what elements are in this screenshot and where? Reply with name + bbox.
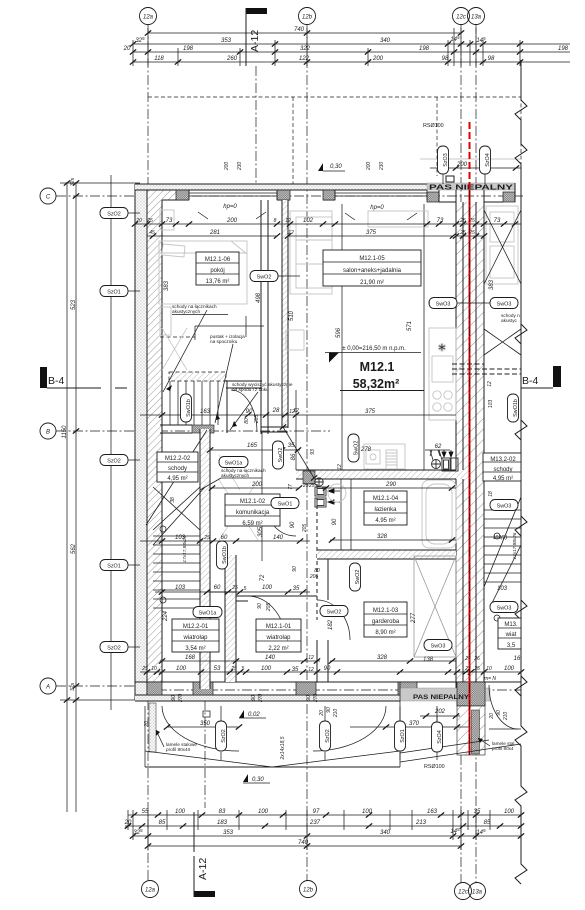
svg-text:83: 83: [219, 809, 226, 815]
svg-text:90: 90: [332, 518, 338, 525]
svg-text:305: 305: [258, 526, 264, 537]
svg-text:akustycznych: akustycznych: [221, 473, 250, 478]
svg-text:SwO1: SwO1: [278, 502, 293, 508]
svg-text:53: 53: [214, 666, 221, 672]
svg-text:od spodu i z boku: od spodu i z boku: [232, 387, 269, 392]
svg-text:571: 571: [407, 321, 413, 331]
svg-text:200: 200: [372, 56, 384, 62]
svg-text:498: 498: [256, 292, 262, 303]
svg-text:210: 210: [333, 709, 339, 719]
svg-text:25: 25: [473, 666, 480, 672]
svg-text:12: 12: [308, 667, 314, 673]
svg-text:45: 45: [149, 230, 155, 236]
svg-text:73: 73: [437, 218, 444, 224]
svg-text:wiat: wiat: [505, 632, 517, 638]
svg-text:224: 224: [163, 610, 169, 622]
svg-text:281: 281: [209, 230, 220, 236]
svg-text:118: 118: [154, 56, 164, 62]
svg-text:SwO3: SwO3: [431, 644, 446, 650]
svg-text:SwO2: SwO2: [354, 441, 360, 456]
svg-text:740: 740: [294, 27, 305, 33]
svg-text:35: 35: [293, 586, 300, 592]
svg-text:schody: schody: [493, 467, 512, 473]
svg-text:200: 200: [226, 218, 238, 224]
svg-text:SwO1a: SwO1a: [199, 611, 217, 617]
svg-text:98: 98: [488, 56, 495, 62]
svg-text:60: 60: [214, 585, 221, 591]
svg-text:25: 25: [230, 666, 237, 672]
svg-text:4,95 m²: 4,95 m²: [493, 476, 513, 482]
svg-text:103: 103: [497, 586, 508, 592]
svg-text:12: 12: [487, 381, 493, 387]
svg-text:A: A: [45, 685, 50, 691]
svg-text:17x17,88x26: 17x17,88x26: [182, 535, 187, 562]
svg-text:140: 140: [273, 535, 284, 541]
svg-text:profil 80x4: profil 80x4: [492, 746, 514, 751]
svg-text:SzO4: SzO4: [437, 730, 443, 743]
svg-text:38: 38: [170, 497, 176, 503]
svg-text:340: 340: [380, 38, 391, 44]
svg-text:SzO3: SzO3: [443, 153, 449, 166]
svg-text:25: 25: [146, 218, 153, 224]
svg-text:akustyc: akustyc: [501, 318, 518, 323]
svg-text:20: 20: [135, 218, 142, 224]
svg-text:RSØ100: RSØ100: [423, 123, 444, 129]
svg-text:26: 26: [473, 656, 480, 662]
svg-text:80: 80: [244, 418, 250, 424]
svg-text:103: 103: [488, 400, 494, 409]
svg-text:m= N: m= N: [484, 676, 496, 682]
svg-text:100: 100: [504, 666, 515, 672]
svg-text:10: 10: [486, 666, 492, 672]
svg-text:13a: 13a: [472, 890, 483, 896]
svg-text:12b: 12b: [303, 888, 314, 894]
svg-text:213: 213: [415, 820, 427, 826]
svg-text:M12.1-06: M12.1-06: [205, 257, 231, 263]
svg-text:200: 200: [251, 482, 263, 488]
svg-text:100: 100: [262, 585, 273, 591]
svg-text:C: C: [46, 195, 51, 201]
svg-text:SwO1a: SwO1a: [225, 461, 243, 467]
svg-text:25: 25: [302, 483, 309, 489]
svg-text:SwO1b: SwO1b: [186, 399, 192, 417]
svg-text:103(2): 103(2): [493, 535, 508, 541]
svg-text:SwO3: SwO3: [436, 302, 451, 308]
svg-text:25: 25: [203, 535, 210, 541]
svg-text:SwO2: SwO2: [257, 275, 272, 281]
svg-text:100: 100: [175, 809, 186, 815]
svg-text:138: 138: [423, 657, 434, 663]
svg-text:230: 230: [379, 162, 385, 172]
svg-text:8,90 m²: 8,90 m²: [375, 630, 395, 636]
svg-text:58,32m²: 58,32m²: [353, 377, 400, 391]
svg-text:25: 25: [459, 218, 466, 224]
svg-text:90: 90: [290, 521, 296, 528]
svg-text:562: 562: [71, 543, 77, 554]
svg-text:SwO2: SwO2: [355, 570, 361, 585]
svg-text:3,5: 3,5: [507, 643, 516, 649]
svg-text:B-4: B-4: [48, 375, 65, 387]
svg-text:35: 35: [292, 667, 299, 673]
svg-text:2x14x18,5: 2x14x18,5: [280, 736, 286, 760]
svg-text:85: 85: [484, 820, 491, 826]
svg-text:18: 18: [488, 491, 494, 497]
svg-text:13,76 m²: 13,76 m²: [206, 279, 230, 285]
svg-text:86: 86: [291, 453, 297, 460]
svg-text:375: 375: [366, 230, 377, 236]
svg-text:M12.1-02: M12.1-02: [240, 499, 266, 505]
svg-text:A-12: A-12: [197, 858, 209, 880]
svg-text:100: 100: [362, 809, 373, 815]
svg-text:SwO3: SwO3: [497, 504, 512, 510]
svg-text:SwO2: SwO2: [278, 448, 284, 463]
svg-text:25: 25: [459, 230, 466, 236]
svg-text:20: 20: [123, 46, 131, 52]
svg-text:0,30: 0,30: [252, 777, 264, 783]
svg-text:SzO2: SzO2: [107, 459, 120, 465]
svg-text:10: 10: [151, 666, 157, 672]
svg-text:0,02: 0,02: [248, 712, 260, 718]
svg-text:163: 163: [427, 809, 438, 815]
svg-text:4,95 m²: 4,95 m²: [375, 518, 395, 524]
svg-text:SzO2: SzO2: [325, 729, 331, 742]
svg-text:12: 12: [337, 464, 343, 470]
svg-text:72: 72: [260, 574, 266, 581]
svg-text:M13.2-02: M13.2-02: [490, 457, 516, 463]
svg-text:12a: 12a: [145, 888, 156, 894]
svg-text:5: 5: [242, 666, 245, 672]
svg-text:350: 350: [200, 721, 211, 727]
svg-text:12: 12: [293, 408, 299, 414]
svg-text:wiatrołap: wiatrołap: [182, 635, 208, 641]
svg-text:206: 206: [309, 574, 319, 580]
svg-text:B: B: [46, 430, 50, 436]
svg-text:90: 90: [257, 603, 263, 609]
svg-text:260: 260: [226, 56, 238, 62]
svg-text:salon+aneks+jadalnia: salon+aneks+jadalnia: [343, 268, 402, 274]
svg-text:8: 8: [274, 218, 277, 224]
svg-text:85: 85: [159, 820, 166, 826]
svg-text:pokój: pokój: [210, 268, 224, 274]
svg-text:SwO1b: SwO1b: [513, 399, 519, 417]
svg-text:M12.1: M12.1: [360, 360, 395, 374]
svg-text:163: 163: [200, 409, 211, 415]
svg-text:35: 35: [288, 443, 295, 449]
svg-text:wiatrołap: wiatrołap: [265, 635, 291, 641]
svg-text:SzO1: SzO1: [107, 564, 120, 570]
svg-text:90: 90: [251, 695, 257, 701]
svg-text:55: 55: [142, 809, 149, 815]
svg-text:RSØ100: RSØ100: [424, 764, 445, 770]
svg-text:77: 77: [288, 484, 294, 490]
svg-text:B-4: B-4: [522, 375, 539, 387]
svg-text:198: 198: [183, 46, 194, 52]
svg-text:100: 100: [504, 809, 515, 815]
svg-text:łazienka: łazienka: [374, 507, 397, 513]
svg-text:6,59 m²: 6,59 m²: [242, 521, 262, 527]
svg-text:21,90 m²: 21,90 m²: [360, 280, 384, 286]
svg-text:12a: 12a: [143, 15, 154, 21]
svg-text:277: 277: [411, 612, 417, 624]
svg-text:596: 596: [336, 327, 342, 338]
svg-text:230: 230: [237, 162, 243, 172]
svg-text:PAS NIEPALNY: PAS NIEPALNY: [413, 694, 470, 701]
svg-text:na spoczniku: na spoczniku: [210, 339, 238, 344]
svg-text:740: 740: [298, 840, 309, 846]
svg-text:200: 200: [366, 162, 372, 172]
svg-text:M12.2-02: M12.2-02: [165, 456, 191, 462]
svg-text:schody: schody: [168, 466, 187, 472]
svg-text:M12.1-05: M12.1-05: [359, 256, 385, 262]
svg-text:SzO4: SzO4: [485, 153, 491, 166]
svg-text:98: 98: [442, 56, 449, 62]
svg-text:97: 97: [313, 809, 320, 815]
svg-text:198: 198: [419, 46, 430, 52]
svg-text:205: 205: [302, 524, 308, 534]
svg-text:garderoba: garderoba: [372, 619, 400, 625]
svg-text:28: 28: [272, 408, 280, 414]
svg-text:SzO2: SzO2: [107, 212, 120, 218]
svg-text:328: 328: [377, 655, 388, 661]
svg-text:210: 210: [503, 712, 509, 722]
svg-text:20: 20: [319, 710, 325, 717]
svg-text:62: 62: [435, 444, 442, 450]
svg-text:35: 35: [474, 809, 481, 815]
svg-text:90: 90: [292, 566, 298, 572]
svg-text:510: 510: [289, 310, 295, 321]
svg-text:140: 140: [265, 655, 276, 661]
svg-text:M13.: M13.: [504, 622, 518, 628]
svg-text:328: 328: [377, 534, 388, 540]
svg-text:SwO2: SwO2: [327, 610, 342, 616]
svg-text:20: 20: [489, 713, 495, 720]
svg-text:16: 16: [514, 656, 521, 662]
svg-text:13a: 13a: [471, 15, 482, 21]
svg-text:12c: 12c: [456, 15, 466, 21]
svg-text:4,95 m²: 4,95 m²: [167, 476, 187, 482]
svg-text:± 0,00=216,50 m n.p.m.: ± 0,00=216,50 m n.p.m.: [342, 346, 406, 352]
svg-text:12b: 12b: [302, 15, 313, 21]
svg-text:20: 20: [124, 820, 132, 826]
svg-text:322: 322: [300, 46, 311, 52]
svg-text:73: 73: [494, 218, 501, 224]
svg-text:100: 100: [176, 666, 187, 672]
svg-text:375: 375: [365, 409, 376, 415]
svg-text:122: 122: [299, 56, 310, 62]
svg-text:25: 25: [231, 585, 238, 591]
svg-text:90: 90: [324, 666, 331, 672]
svg-text:165: 165: [247, 443, 258, 449]
svg-text:103: 103: [175, 585, 186, 591]
svg-text:90: 90: [246, 409, 253, 415]
svg-text:353: 353: [223, 830, 234, 836]
svg-text:182: 182: [328, 619, 334, 630]
svg-text:100: 100: [261, 666, 272, 672]
svg-text:90: 90: [496, 710, 502, 716]
svg-text:profil 80x40: profil 80x40: [166, 747, 191, 752]
svg-text:370: 370: [409, 721, 420, 727]
svg-text:SzO1: SzO1: [400, 729, 406, 742]
svg-text:100: 100: [258, 809, 269, 815]
svg-text:168: 168: [185, 655, 196, 661]
svg-text:12: 12: [308, 655, 314, 661]
svg-text:SzO2: SzO2: [221, 729, 227, 742]
svg-text:3,54 m²: 3,54 m²: [185, 646, 205, 652]
svg-text:523: 523: [71, 299, 77, 310]
svg-text:102: 102: [303, 218, 314, 224]
svg-text:12: 12: [285, 218, 291, 224]
svg-text:5: 5: [244, 586, 247, 592]
svg-text:2,22 m²: 2,22 m²: [268, 646, 288, 652]
svg-text:hp=0: hp=0: [370, 205, 384, 211]
svg-text:383: 383: [489, 279, 495, 290]
svg-text:SwO3: SwO3: [497, 302, 512, 308]
svg-text:SzO2: SzO2: [107, 646, 120, 652]
svg-text:90: 90: [171, 695, 177, 701]
svg-text:M12.1-03: M12.1-03: [373, 608, 399, 614]
svg-text:290: 290: [385, 482, 397, 488]
svg-text:17x17,88x26: 17x17,88x26: [512, 532, 517, 559]
svg-text:60: 60: [221, 535, 228, 541]
svg-text:200: 200: [456, 162, 468, 168]
svg-text:25: 25: [141, 666, 148, 672]
svg-text:73: 73: [166, 218, 173, 224]
svg-text:SzO1: SzO1: [107, 290, 120, 296]
svg-text:202: 202: [434, 709, 446, 715]
svg-text:SwO1b: SwO1b: [222, 546, 228, 564]
svg-text:M12.1-04: M12.1-04: [373, 496, 399, 502]
svg-text:M12.2-01: M12.2-01: [183, 624, 209, 630]
svg-text:200: 200: [224, 162, 230, 172]
svg-text:93: 93: [310, 449, 316, 455]
svg-text:237: 237: [309, 820, 321, 826]
svg-text:akustycznych: akustycznych: [172, 309, 201, 314]
svg-text:340: 340: [380, 830, 391, 836]
svg-text:270: 270: [313, 694, 319, 704]
svg-text:383: 383: [164, 280, 170, 291]
svg-text:183: 183: [217, 820, 228, 826]
svg-text:353: 353: [221, 38, 232, 44]
svg-text:198: 198: [558, 46, 569, 52]
svg-text:205: 205: [254, 415, 260, 425]
svg-text:270: 270: [258, 694, 264, 704]
svg-text:M12.1-01: M12.1-01: [266, 624, 292, 630]
svg-text:1150: 1150: [62, 425, 68, 439]
svg-text:komunikacja: komunikacja: [236, 510, 270, 516]
svg-text:90: 90: [326, 707, 332, 713]
svg-text:205: 205: [266, 603, 272, 613]
svg-text:PAS NIEPALNY: PAS NIEPALNY: [429, 185, 514, 192]
svg-text:90: 90: [306, 695, 312, 701]
svg-text:hp=0: hp=0: [223, 204, 237, 210]
svg-text:25: 25: [308, 483, 315, 489]
svg-text:20: 20: [144, 721, 150, 728]
svg-text:0,30: 0,30: [330, 164, 342, 170]
svg-text:12c: 12c: [458, 890, 468, 896]
svg-text:✱: ✱: [438, 343, 446, 354]
svg-text:12: 12: [288, 230, 294, 236]
svg-text:278: 278: [360, 447, 372, 453]
svg-text:SwO3: SwO3: [497, 606, 512, 612]
svg-text:270: 270: [178, 694, 184, 704]
